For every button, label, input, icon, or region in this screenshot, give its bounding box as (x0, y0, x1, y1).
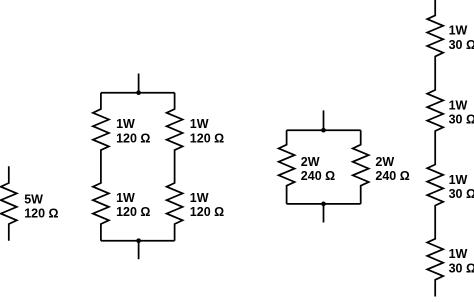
svg-text:240 Ω: 240 Ω (301, 169, 335, 183)
svg-text:2W: 2W (375, 155, 394, 169)
svg-text:1W: 1W (449, 24, 468, 38)
svg-text:1W: 1W (449, 247, 468, 261)
svg-text:2W: 2W (301, 155, 320, 169)
svg-text:120 Ω: 120 Ω (116, 131, 150, 145)
svg-text:1W: 1W (190, 191, 209, 205)
svg-text:5W: 5W (24, 193, 43, 207)
svg-text:240 Ω: 240 Ω (375, 169, 409, 183)
svg-text:1W: 1W (449, 98, 468, 112)
svg-text:30 Ω: 30 Ω (449, 262, 474, 276)
svg-text:30 Ω: 30 Ω (449, 38, 474, 52)
svg-text:30 Ω: 30 Ω (449, 113, 474, 127)
svg-text:120 Ω: 120 Ω (190, 205, 224, 219)
svg-text:30 Ω: 30 Ω (449, 187, 474, 201)
svg-text:1W: 1W (116, 117, 135, 131)
svg-text:1W: 1W (116, 191, 135, 205)
svg-text:120 Ω: 120 Ω (190, 131, 224, 145)
svg-text:1W: 1W (190, 117, 209, 131)
svg-text:1W: 1W (449, 173, 468, 187)
svg-text:120 Ω: 120 Ω (116, 205, 150, 219)
svg-text:120 Ω: 120 Ω (24, 207, 58, 221)
